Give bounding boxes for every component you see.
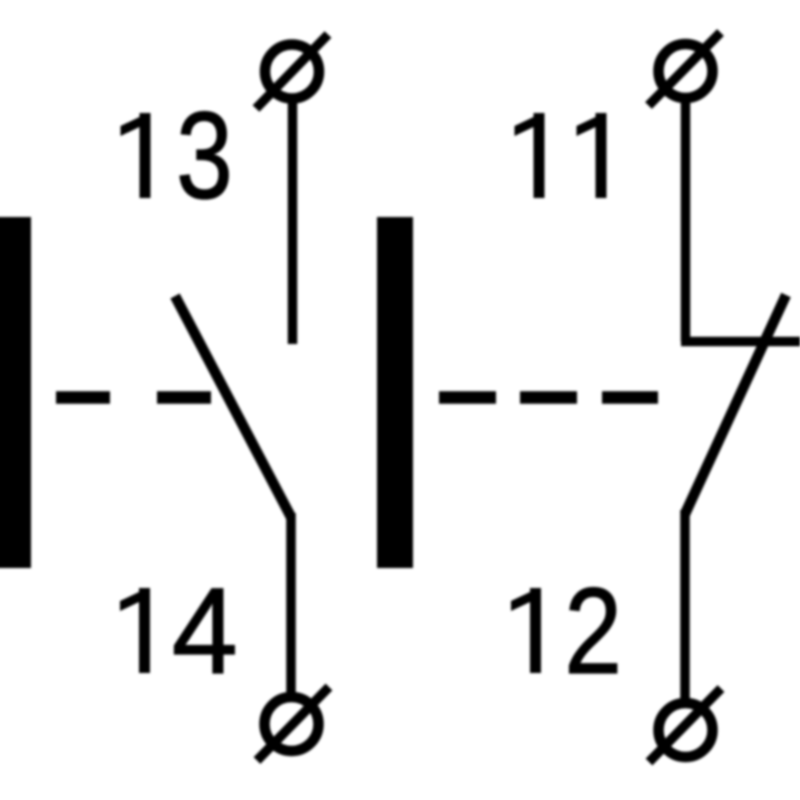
svg-text:2: 2 (564, 563, 622, 700)
fixed contact wire of NC contact, horizontal to right edge (681, 337, 800, 347)
label 12 (511, 563, 622, 700)
wire from NC arm down to terminal 12 (680, 510, 690, 703)
terminal 14 (screw terminal circle with slash) (257, 687, 329, 761)
terminal 12 (screw terminal circle with slash) (649, 689, 721, 763)
wire from terminal 13 down to NO contact (288, 97, 298, 344)
actuator bar (push-button plunger), middle (377, 217, 413, 568)
wire from NO arm down to terminal 14 (286, 513, 296, 698)
actuator bar (push-button plunger), left (0, 217, 31, 568)
terminal 13 (screw terminal circle with slash) (256, 35, 328, 109)
actuator link dashed wire, right section (439, 391, 658, 404)
label 14 (120, 562, 238, 699)
label 11 (515, 113, 607, 198)
actuator link dashed wire, left section (56, 391, 211, 404)
label 13 (121, 87, 233, 224)
svg-text:3: 3 (176, 87, 233, 224)
NC contact moving arm (contact 11-12) (685, 295, 786, 514)
svg-text:4: 4 (172, 562, 238, 699)
wire from terminal 11 down to NC contact corner (681, 96, 691, 342)
terminal 11 (screw terminal circle with slash) (649, 33, 721, 106)
NO contact moving arm (contact 13-14) (175, 296, 291, 517)
